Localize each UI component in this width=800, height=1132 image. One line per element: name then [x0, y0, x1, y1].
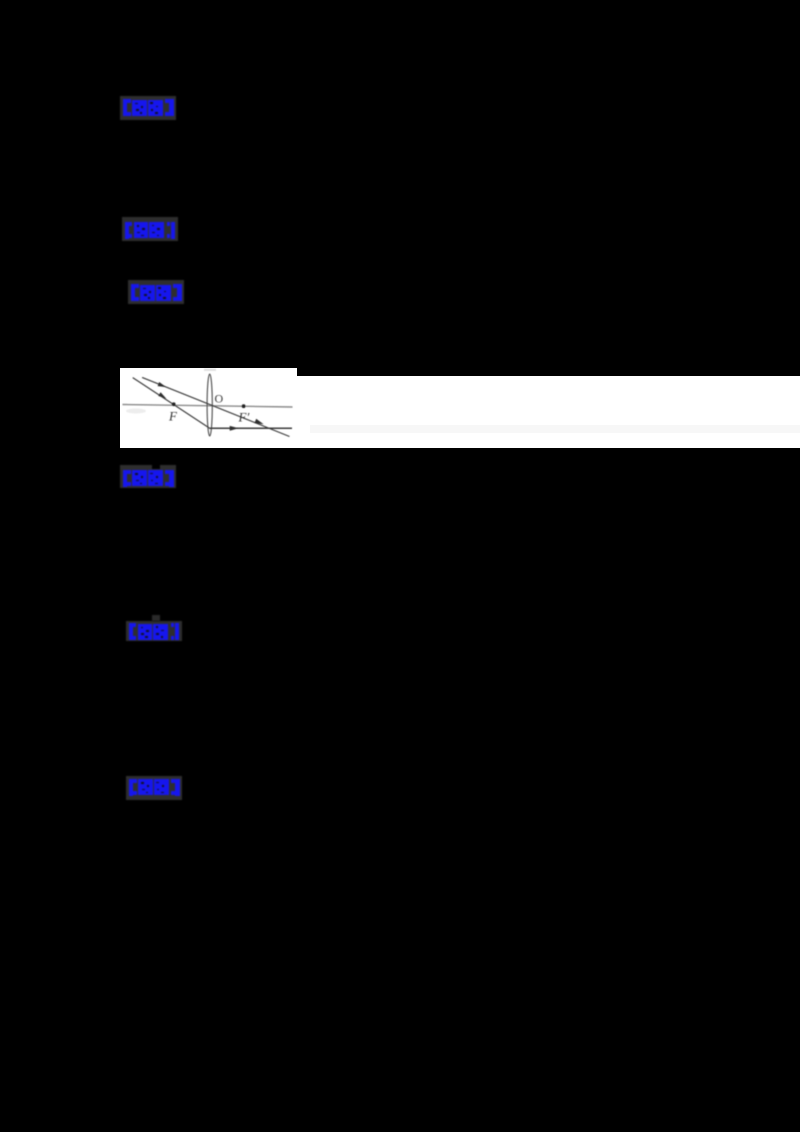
faint gray band inside strip: [310, 425, 800, 433]
blue marker tag5: [126, 621, 182, 642]
svg-text:F′: F′: [237, 410, 249, 425]
focal point dot F: [171, 402, 175, 406]
small gray tab above tag5: [152, 615, 160, 621]
scan smudge left of F: [126, 409, 146, 414]
svg-text:O: O: [214, 392, 223, 406]
incident ray A (through optical centre O): [142, 377, 289, 436]
arrowhead on ray A after lens: [254, 419, 264, 427]
optical axis: [122, 405, 292, 408]
arrowhead on horizontal refracted ray: [229, 426, 238, 431]
lens (thin ellipse): [207, 374, 212, 436]
arrowhead on ray A before lens: [157, 382, 166, 389]
blue marker tag2: [122, 217, 178, 241]
scanned figure: converging lens ray diagram: [120, 368, 297, 448]
blue marker tag6: [126, 776, 182, 800]
blue marker tag4: [120, 465, 176, 489]
blue marker tag1: [120, 96, 176, 120]
scan smudge above lens: [204, 369, 216, 372]
blue marker tag3: [128, 280, 184, 304]
white highlight strip (paragraph line background): [296, 376, 800, 448]
incident ray B (through focal point F): [132, 378, 208, 428]
refracted horizontal ray: [209, 427, 292, 429]
focal point dot F-prime: [241, 404, 245, 408]
arrowhead on ray B before lens: [158, 392, 167, 400]
svg-text:F: F: [168, 409, 178, 424]
